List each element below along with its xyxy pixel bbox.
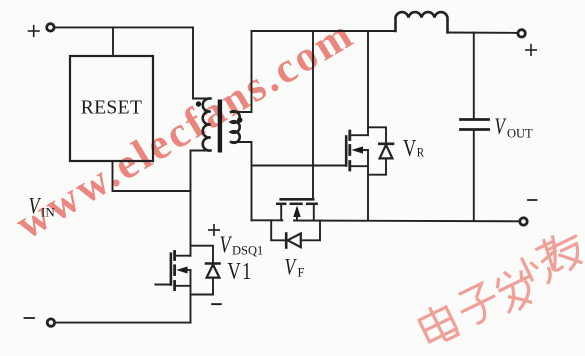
plus sign input	[29, 26, 40, 37]
primary polarity dot	[196, 101, 201, 106]
plus sign VDSQ1	[209, 225, 219, 235]
wire left of sync mosfet	[252, 219, 283, 221]
reset box	[70, 56, 153, 161]
svg-text:OUT: OUT	[507, 127, 533, 141]
wire secondary bottom	[231, 142, 252, 220]
label VOUT	[495, 115, 534, 141]
bottom left rail	[55, 322, 190, 324]
inductor L	[396, 12, 448, 32]
capacitor Cout wire top	[473, 33, 475, 120]
label VF	[285, 255, 305, 280]
secondary polarity dot	[237, 117, 242, 122]
wire VR gate	[252, 165, 347, 167]
bottom right rail	[294, 220, 520, 223]
diode VR cathode bar	[379, 143, 393, 146]
wire top-left rail	[55, 26, 193, 28]
terminal circle output -	[520, 218, 527, 225]
diode VF loop right	[301, 221, 320, 241]
mosfet sync right stub	[313, 205, 315, 221]
wire VR drain from rail	[367, 31, 369, 135]
mosfet V1 channel segments	[173, 252, 176, 290]
mosfet V1 gate bar	[170, 254, 173, 285]
char 烧	[509, 236, 568, 293]
svg-text:F: F	[298, 266, 305, 280]
mosfet sync channel segments	[277, 203, 316, 206]
minus sign input	[25, 317, 35, 319]
plus sign output	[526, 45, 536, 56]
mosfet V1 drain branch	[191, 246, 214, 263]
diode VF cathode bar	[285, 234, 288, 248]
mosfet VR bulk arrow	[352, 146, 364, 153]
mosfet VR gate bar	[345, 137, 348, 166]
wire reset tap	[112, 27, 114, 56]
wire top-right rail	[252, 30, 396, 32]
watermark 电子发烧友 (hand drawn strokes)	[416, 226, 585, 347]
mosfet sync: gate bar	[281, 198, 314, 201]
terminal circle input +	[47, 24, 54, 31]
capacitor Cout plates	[461, 120, 489, 130]
svg-text:V1: V1	[228, 258, 253, 285]
mosfet sync left stub	[280, 205, 282, 220]
labels V1 VDSQ1	[29, 195, 264, 305]
char 电	[416, 301, 459, 347]
transformer primary winding	[203, 98, 211, 150]
wire primary bottom	[191, 151, 211, 256]
diode VR body: branch	[368, 127, 386, 142]
mosfet V1 drain stub	[175, 255, 191, 257]
minus sign VDSQ1	[211, 303, 222, 305]
svg-text:R: R	[417, 145, 425, 160]
mosfet VR source lead	[350, 150, 368, 166]
char 发	[491, 263, 540, 315]
terminal circle input -	[47, 319, 54, 326]
mosfet VR channel segments	[348, 131, 351, 170]
diode V1 cathode bar	[206, 262, 220, 265]
svg-text:RESET: RESET	[81, 98, 143, 119]
svg-text:V: V	[403, 135, 417, 162]
wire primary top	[193, 27, 211, 98]
mosfet V1 gate lead	[155, 284, 171, 286]
minus sign output	[528, 199, 537, 201]
label VR	[403, 135, 425, 162]
terminal circle output +	[518, 30, 525, 37]
diode VF loop left	[271, 220, 286, 240]
svg-text:V: V	[220, 231, 233, 258]
mosfet V1 source lead	[175, 270, 191, 286]
capacitor Cout wire bottom	[473, 131, 475, 221]
wire secondary top	[231, 31, 252, 112]
wire reset bottom	[113, 161, 191, 191]
mosfet V1 bulk arrow	[176, 267, 187, 274]
diode V1 triangle	[207, 265, 220, 278]
char 子	[453, 280, 502, 328]
watermark www.elecfans.com	[8, 10, 363, 249]
transformer core	[218, 100, 222, 153]
wire V1 source down	[190, 286, 192, 323]
wire gate drive middle mosfet	[312, 31, 314, 198]
svg-text:DSQ1: DSQ1	[232, 244, 263, 258]
wire rail after inductor	[448, 32, 519, 34]
diode VR triangle	[380, 145, 393, 159]
diode VF triangle	[288, 233, 301, 247]
mosfet VR drain lead	[350, 134, 368, 136]
wire VR source down	[367, 166, 369, 220]
svg-text:IN: IN	[41, 205, 55, 220]
mosfet sync bulk arrow	[293, 206, 300, 218]
transformer secondary winding	[231, 111, 240, 143]
char 友	[541, 226, 585, 276]
